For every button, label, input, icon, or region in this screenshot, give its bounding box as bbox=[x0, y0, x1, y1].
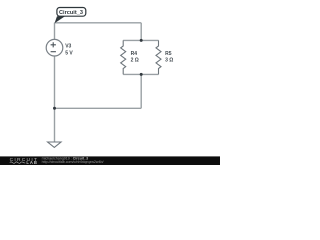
voltage source V3 value label 5 V bbox=[65, 50, 73, 56]
resistor R4 body bbox=[121, 40, 126, 74]
wire: resistor bottom bus bbox=[123, 73, 158, 75]
node label Circuit_3 box bbox=[57, 8, 86, 17]
voltage source V3 name label bbox=[65, 43, 71, 49]
resistor R5 body bbox=[156, 40, 161, 74]
resistor R4 value label 2 ohm bbox=[131, 58, 139, 64]
node label Circuit_3 pointer bbox=[55, 16, 66, 23]
junction: bottom rail at V3 branch bbox=[53, 107, 56, 110]
wire: resistor top bus bbox=[123, 39, 158, 41]
svg-text:Circuit_3: Circuit_3 bbox=[59, 10, 83, 16]
footer CircuitLab logo CIRCUIT bbox=[10, 157, 39, 163]
node label Circuit_3 text bbox=[59, 10, 83, 16]
junction: bottom resistor bus feed bbox=[140, 73, 143, 76]
svg-text:5 V: 5 V bbox=[65, 50, 73, 56]
resistor R4 name label bbox=[131, 51, 138, 57]
footer bar bbox=[0, 156, 220, 165]
junction: top resistor bus feed bbox=[140, 39, 143, 42]
footer text line 2 bbox=[42, 160, 104, 164]
svg-text:2 Ω: 2 Ω bbox=[131, 58, 139, 64]
voltage source V3 circle bbox=[46, 39, 63, 56]
svg-text:LAB: LAB bbox=[26, 160, 37, 165]
wire: vertical from corner down to V3 top bbox=[54, 23, 56, 40]
resistor R5 name label bbox=[165, 51, 172, 57]
wire: bottom horizontal rail bbox=[55, 107, 142, 109]
svg-text:http://circuitlab.com/c/nh9dqr: http://circuitlab.com/c/nh9dqrqzw2w4b/ bbox=[42, 160, 104, 164]
svg-text:3 Ω: 3 Ω bbox=[165, 58, 173, 64]
voltage source V3 minus sign bbox=[51, 51, 56, 53]
footer text line 1 bbox=[42, 156, 89, 160]
svg-text:R5: R5 bbox=[165, 51, 172, 57]
voltage source V3 plus sign bbox=[51, 42, 56, 47]
svg-text:V3: V3 bbox=[65, 43, 71, 49]
wire: feed vertical from resistor bottom bus down to bottom rail bbox=[140, 74, 142, 108]
ground symbol bbox=[48, 142, 61, 147]
wire: V3 bottom lead down to ground bbox=[54, 56, 56, 142]
svg-text:R4: R4 bbox=[131, 51, 138, 57]
footer CircuitLab logo wave bbox=[10, 162, 25, 164]
footer CircuitLab logo LAB bbox=[26, 160, 37, 165]
wire: top horizontal rail from node corner to resistor feed bbox=[55, 22, 142, 24]
resistor R5 value label 3 ohm bbox=[165, 58, 173, 64]
wire: feed vertical from top rail to resistor top bus bbox=[140, 23, 142, 41]
